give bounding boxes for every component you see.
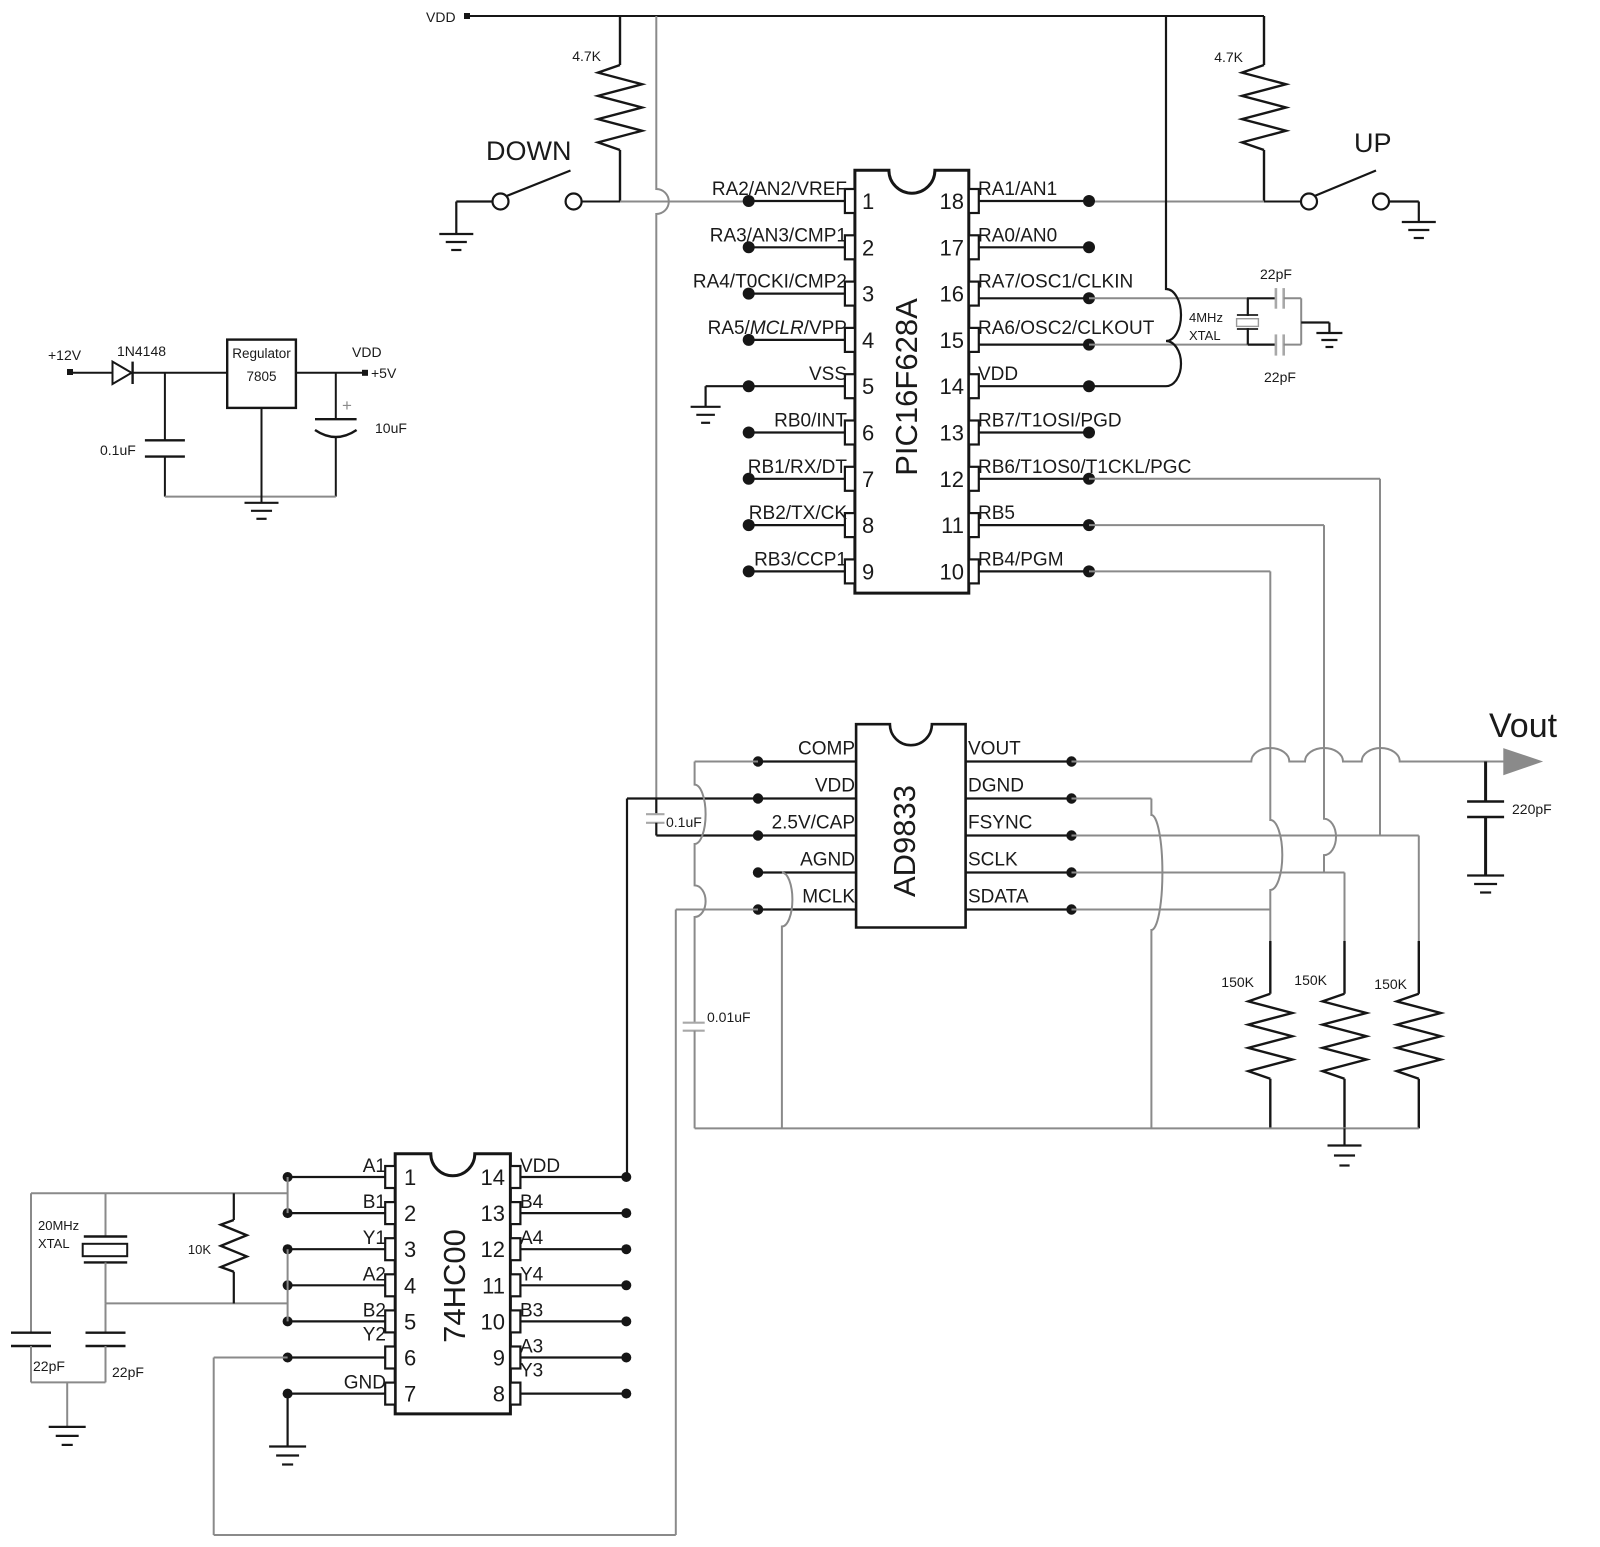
wire crystal cap bus (1300, 298, 1302, 344)
junction dot SCLK (1066, 867, 1076, 877)
wire VDD top rail (470, 15, 1264, 17)
label 220pF (C7) (1512, 801, 1552, 817)
junction dot pin 14 (1083, 380, 1095, 392)
svg-text:RB3/CCP1: RB3/CCP1 (754, 549, 847, 570)
svg-text:150K: 150K (1374, 976, 1407, 992)
IC U4 74HC00 body (395, 1154, 510, 1414)
wire AD9833 VDD stub (758, 797, 856, 799)
wire DOWN net to PIC pin 1 (620, 201, 749, 203)
label 1N4148 (117, 343, 166, 359)
svg-text:7: 7 (862, 467, 874, 492)
svg-text:0.01uF: 0.01uF (707, 1009, 751, 1025)
wire AD9833 SCLK stub (966, 871, 1072, 873)
svg-text:RB1/RX/DT: RB1/RX/DT (748, 457, 848, 478)
svg-text:12: 12 (481, 1237, 505, 1262)
wire PIC pin 6 stub (749, 431, 845, 433)
svg-text:150K: 150K (1221, 974, 1254, 990)
wire supply ground rail (165, 496, 336, 498)
IC U2 AD9833 body (856, 724, 966, 927)
svg-text:8: 8 (862, 513, 874, 538)
svg-text:220pF: 220pF (1512, 801, 1552, 817)
wire pin 6 feedback loop (214, 1358, 676, 1536)
svg-text:13: 13 (481, 1201, 505, 1226)
svg-text:COMP: COMP (798, 739, 855, 760)
wire PIC pin 8 stub (749, 524, 845, 526)
label UP (1354, 128, 1392, 158)
ground (crystal) (1316, 333, 1342, 347)
junction dot VDD (753, 793, 763, 803)
resistor R6 10K (221, 1193, 247, 1303)
svg-text:XTAL: XTAL (1189, 328, 1221, 343)
junction dot pin 11 (1083, 519, 1095, 531)
svg-text:10uF: 10uF (375, 420, 407, 436)
label 0.1uF (C5) (666, 814, 702, 830)
wire 22pF ground link (31, 1382, 106, 1426)
wire AGND net down (782, 873, 793, 1129)
IC U2 left pin labels (772, 739, 856, 908)
wire resistor R2 to UP switch (1264, 201, 1301, 203)
svg-text:RB0/INT: RB0/INT (774, 411, 847, 432)
svg-text:PIC16F628A: PIC16F628A (889, 298, 924, 476)
junction dot pin 17 (1083, 241, 1095, 253)
svg-text:RA0/AN0: RA0/AN0 (978, 225, 1057, 246)
junction dot pin 10 (1083, 565, 1095, 577)
junction dot 74HC00 pin 4 (283, 1280, 293, 1290)
svg-text:10: 10 (940, 559, 964, 584)
wire link pins 3-4-5 (287, 1249, 289, 1321)
label 22pF (C9) (112, 1364, 144, 1380)
svg-text:13: 13 (940, 421, 964, 446)
junction dot pin 18 (1083, 195, 1095, 207)
capacitor C7 220pF (1467, 762, 1504, 875)
svg-text:7805: 7805 (246, 369, 276, 384)
svg-text:Y4: Y4 (520, 1264, 544, 1285)
resistor R5 150K (1397, 994, 1441, 1129)
svg-text:DOWN: DOWN (486, 136, 571, 166)
svg-text:1: 1 (404, 1165, 416, 1190)
wire PIC pin 1 stub (749, 200, 845, 202)
node VDD +5V (352, 344, 397, 381)
svg-text:RA3/AN3/CMP1: RA3/AN3/CMP1 (710, 225, 847, 246)
capacitor C4 22pF (bottom) (1276, 334, 1301, 355)
wire PIC pin 14 stub (979, 385, 1089, 387)
junction dot COMP (753, 756, 763, 766)
svg-text:AGND: AGND (800, 850, 855, 871)
wire link pins 1-2 (287, 1177, 289, 1213)
wire AD9833 MCLK stub (758, 908, 856, 910)
label 4MHz XTAL (1189, 310, 1223, 343)
junction dot 74HC00 pin 5 (283, 1316, 293, 1326)
svg-text:4: 4 (862, 328, 874, 353)
label DOWN (486, 136, 571, 166)
junction dot pin 1 (743, 195, 755, 207)
wire 74HC00 pin 6 stub (288, 1356, 386, 1358)
ground (220pF) (1467, 876, 1504, 893)
junction dot pin 6 (743, 427, 755, 439)
diode D1 1N4148 (113, 362, 133, 384)
svg-text:DGND: DGND (968, 776, 1024, 797)
node +12V (48, 347, 82, 375)
switch DOWN (456, 171, 581, 210)
label 22pF (top) (1260, 266, 1292, 282)
svg-text:14: 14 (481, 1165, 505, 1190)
wire +12V to diode (73, 372, 113, 374)
wire AD9833 COMP stub (758, 760, 856, 762)
wire 74HC00 pin 9 stub (520, 1356, 626, 1358)
wire 74HC00 pin 8 stub (520, 1392, 626, 1394)
junction dot pin 3 (743, 288, 755, 300)
ground (VSS) (691, 407, 721, 423)
junction dot pin 5 (743, 380, 755, 392)
junction dot DGND (1066, 793, 1076, 803)
ground (20MHz caps) (49, 1427, 86, 1445)
wire PIC pin 4 stub (749, 339, 845, 341)
ground (74HC00) (269, 1447, 306, 1465)
wire oscillator top net (31, 1192, 288, 1194)
IC U1 PIC16F628A body (855, 170, 969, 593)
wire osc left branch (30, 1193, 32, 1332)
label Vout (1489, 707, 1558, 745)
svg-text:20MHz: 20MHz (38, 1218, 79, 1233)
svg-text:UP: UP (1354, 128, 1392, 158)
svg-text:11: 11 (482, 1273, 505, 1298)
output arrow Vout (1504, 749, 1542, 775)
junction dot 74HC00 pin 1 (283, 1172, 293, 1182)
ground (DOWN switch) (439, 202, 473, 251)
junction dot 74HC00 pin 11 (621, 1280, 631, 1290)
svg-text:8: 8 (493, 1382, 505, 1407)
svg-text:22pF: 22pF (1264, 369, 1296, 385)
IC U4 left pin labels (344, 1156, 386, 1394)
wire AD9833 FSYNC stub (966, 834, 1072, 836)
svg-text:FSYNC: FSYNC (968, 813, 1032, 834)
label 22pF (bottom) (1264, 369, 1296, 385)
svg-text:VOUT: VOUT (968, 739, 1021, 760)
wire to crystal ground (1301, 323, 1329, 333)
wire PIC pin 7 stub (749, 478, 845, 480)
junction dot AGND (753, 867, 763, 877)
junction dot pin 15 (1083, 339, 1095, 351)
wire RA7/OSC1 to crystal (1089, 297, 1276, 299)
svg-text:RA7/OSC1/CLKIN: RA7/OSC1/CLKIN (978, 272, 1133, 293)
wire 74HC00 pin 5 stub (288, 1320, 386, 1322)
junction dot 74HC00 pin 10 (621, 1316, 631, 1326)
wire PIC pin 10 stub (979, 570, 1089, 572)
svg-text:A2: A2 (363, 1264, 386, 1285)
svg-text:9: 9 (862, 559, 874, 584)
svg-text:7: 7 (404, 1382, 416, 1407)
wire 74HC00 pin 14 stub (520, 1176, 626, 1178)
svg-text:14: 14 (940, 374, 964, 399)
svg-text:10: 10 (481, 1309, 505, 1334)
wire DGND net down (1072, 799, 1163, 1129)
wire diode to regulator (133, 372, 227, 374)
svg-text:VDD: VDD (520, 1156, 560, 1177)
junction dot pin 16 (1083, 292, 1095, 304)
svg-text:A3: A3 (520, 1337, 543, 1358)
wire regulator ground pin (261, 408, 263, 502)
svg-text:5: 5 (862, 374, 874, 399)
label 0.01uF (C6) (707, 1009, 751, 1025)
svg-text:0.1uF: 0.1uF (666, 814, 702, 830)
wire 74HC00 pin 4 stub (288, 1284, 386, 1286)
capacitor C8 22pF (left) (11, 1333, 51, 1383)
svg-text:VDD: VDD (352, 344, 382, 360)
resistor R1 4.7K (left) (598, 16, 642, 202)
wire DOWN switch to resistor R1 (582, 201, 620, 203)
IC U2 right pin labels (968, 739, 1032, 908)
svg-text:1: 1 (862, 189, 874, 214)
wire analog ground rail (695, 1127, 1419, 1129)
svg-text:MCLK: MCLK (802, 887, 855, 908)
resistor R3 150K (1248, 994, 1292, 1129)
junction dot pin 2 (743, 241, 755, 253)
resistor R4 150K (1323, 994, 1367, 1129)
junction dot VOUT (1066, 756, 1076, 766)
svg-text:RA4/T0CKI/CMP2: RA4/T0CKI/CMP2 (693, 272, 847, 293)
wire FSYNC net (1072, 836, 1419, 994)
svg-text:+5V: +5V (371, 365, 397, 381)
wire PIC pin 5 VSS (706, 386, 845, 406)
svg-text:Vout: Vout (1489, 707, 1558, 745)
wire AD9833 DGND stub (966, 797, 1072, 799)
label 4.7K (right) (1214, 49, 1243, 65)
svg-text:+: + (342, 396, 352, 415)
svg-text:RA5/MCLR/VPP: RA5/MCLR/VPP (708, 318, 847, 339)
svg-text:B3: B3 (520, 1300, 543, 1321)
svg-text:GND: GND (344, 1373, 386, 1394)
junction dot MCLK (753, 904, 763, 914)
junction dot 74HC00 pin 13 (621, 1208, 631, 1218)
junction dot FSYNC (1066, 830, 1076, 840)
svg-text:1N4148: 1N4148 (117, 343, 166, 359)
capacitor C6 0.01uF (683, 1023, 705, 1129)
wire SDATA net (1072, 909, 1271, 911)
svg-text:SCLK: SCLK (968, 850, 1018, 871)
svg-text:4: 4 (404, 1273, 416, 1298)
svg-text:RB6/T1OS0/T1CKL/PGC: RB6/T1OS0/T1CKL/PGC (978, 457, 1191, 478)
svg-text:SDATA: SDATA (968, 887, 1029, 908)
wire 74HC00 pin 13 stub (520, 1212, 626, 1214)
ground (rail) (1328, 1128, 1362, 1165)
wire VOUT net (1072, 748, 1504, 762)
IC U1 pin boxes (845, 189, 979, 583)
wire UP net from PIC pin 18 (1089, 201, 1264, 203)
svg-text:RA1/AN1: RA1/AN1 (978, 179, 1057, 200)
junction dot 74HC00 pin 6 (283, 1353, 293, 1363)
wire COMP net down (695, 762, 758, 1023)
crystal X2 20MHz (83, 1193, 128, 1303)
wire 74HC00 pin 11 stub (520, 1284, 626, 1286)
wire PIC pin 12 stub (979, 478, 1089, 480)
wire VDD pin 14 to rail (1089, 16, 1181, 386)
junction dot pin 8 (743, 519, 755, 531)
wire RB4 to SDATA (1089, 571, 1282, 993)
svg-text:+12V: +12V (48, 347, 82, 363)
capacitor C2 10uF (polarized) (315, 373, 357, 497)
svg-text:4MHz: 4MHz (1189, 310, 1223, 325)
IC U1 pin numbers (862, 189, 964, 584)
svg-text:18: 18 (940, 189, 964, 214)
wire VDD net to AD9833 and 74HC00 (627, 799, 758, 1178)
wire AD9833 SDATA stub (966, 908, 1072, 910)
label 22pF (C8) (33, 1358, 65, 1374)
junction dot 74HC00 pin 14 (621, 1172, 631, 1182)
junction dot pin 4 (743, 334, 755, 346)
wire PIC pin 2 stub (749, 246, 845, 248)
svg-text:3: 3 (404, 1237, 416, 1262)
svg-text:3: 3 (862, 282, 874, 307)
junction dot 74HC00 pin 8 (621, 1389, 631, 1399)
wire 74HC00 pin 2 stub (288, 1212, 386, 1214)
junction dot 74HC00 pin 9 (621, 1353, 631, 1363)
IC U1 right pin labels (978, 179, 1191, 570)
wire PIC pin 9 stub (749, 570, 845, 572)
svg-text:6: 6 (862, 421, 874, 446)
junction dot pin 12 (1083, 473, 1095, 485)
svg-text:150K: 150K (1294, 972, 1327, 988)
capacitor C1 0.1uF (145, 373, 185, 497)
wire AD9833 2.5V/CAP stub (758, 834, 856, 836)
capacitor C3 22pF (top) (1276, 288, 1301, 309)
switch UP (1301, 171, 1419, 210)
svg-text:2: 2 (862, 235, 874, 260)
label 10uF (C2) (375, 420, 407, 436)
capacitor C5 0.1uF (AD9833 decoupling) (646, 799, 758, 836)
svg-text:Regulator: Regulator (232, 346, 291, 361)
wire 74HC00 pin 1 stub (288, 1176, 386, 1178)
svg-text:22pF: 22pF (1260, 266, 1292, 282)
ground (UP switch) (1402, 202, 1436, 239)
wire AD9833 AGND stub (758, 871, 856, 873)
wire RB6 to FSYNC (1089, 479, 1380, 836)
svg-text:RB2/TX/CK: RB2/TX/CK (749, 503, 848, 524)
svg-text:22pF: 22pF (33, 1358, 65, 1374)
svg-text:74HC00: 74HC00 (437, 1229, 472, 1343)
svg-text:16: 16 (940, 282, 964, 307)
junction dot 2.5V/CAP (753, 830, 763, 840)
wire 74HC00 GND pin (287, 1394, 289, 1446)
svg-text:17: 17 (940, 235, 964, 260)
svg-text:Y2: Y2 (363, 1324, 386, 1345)
label 0.1uF (C1) (100, 442, 136, 458)
ground (regulator) (245, 503, 279, 519)
svg-text:2.5V/CAP: 2.5V/CAP (772, 813, 855, 834)
junction dot pin 9 (743, 565, 755, 577)
svg-text:Y1: Y1 (363, 1228, 386, 1249)
svg-text:RB5: RB5 (978, 503, 1015, 524)
label PIC16F628A (889, 298, 924, 476)
junction dot 74HC00 pin 2 (283, 1208, 293, 1218)
junction dot 74HC00 pin 7 (283, 1389, 293, 1399)
svg-text:RB4/PGM: RB4/PGM (978, 549, 1064, 570)
svg-text:15: 15 (940, 328, 964, 353)
svg-text:AD9833: AD9833 (887, 785, 922, 897)
junction dot 74HC00 pin 3 (283, 1244, 293, 1254)
svg-text:A4: A4 (520, 1228, 544, 1249)
wire VDD branch to AD9833/74HC00 supply (656, 16, 668, 799)
IC U4 pin numbers (404, 1165, 505, 1407)
svg-text:VDD: VDD (426, 9, 456, 25)
svg-text:Y3: Y3 (520, 1361, 543, 1382)
wire crystal bottom to cap (105, 1303, 107, 1332)
svg-text:5: 5 (404, 1309, 416, 1334)
svg-text:VDD: VDD (815, 776, 855, 797)
label 4.7K (left) (572, 48, 601, 64)
wire PIC pin 18 stub (979, 200, 1089, 202)
junction dot SDATA (1066, 904, 1076, 914)
regulator U3 7805 (227, 340, 296, 408)
wire MCLK net (676, 910, 758, 1536)
svg-text:B2: B2 (363, 1300, 386, 1321)
node VDD (top rail label) (426, 9, 470, 25)
junction dot pin 7 (743, 473, 755, 485)
wire SCLK net (1072, 873, 1345, 994)
wire RB5 to SCLK (1089, 525, 1336, 872)
IC U4 right pin labels (520, 1156, 560, 1382)
wire PIC pin 13 stub (979, 431, 1089, 433)
svg-text:RA2/AN2/VREF: RA2/AN2/VREF (712, 179, 847, 200)
IC U4 pin boxes (385, 1166, 520, 1405)
svg-text:XTAL: XTAL (38, 1236, 70, 1251)
svg-text:11: 11 (941, 513, 964, 538)
svg-text:RB7/T1OSI/PGD: RB7/T1OSI/PGD (978, 411, 1122, 432)
wire 74HC00 pin 7 stub (288, 1392, 386, 1394)
junction dot pin 13 (1083, 427, 1095, 439)
wire PIC pin 15 stub (979, 344, 1089, 346)
label AD9833 (887, 785, 922, 897)
wire 74HC00 pin 12 stub (520, 1248, 626, 1250)
wire AD9833 VOUT stub (966, 760, 1072, 762)
wire 74HC00 pin 10 stub (520, 1320, 626, 1322)
svg-text:2: 2 (404, 1201, 416, 1226)
wire PIC pin 16 stub (979, 297, 1089, 299)
IC U1 left pin labels (693, 179, 848, 570)
svg-text:10K: 10K (188, 1242, 211, 1257)
wire RA6/OSC2 to crystal (1089, 344, 1276, 346)
label 150K (R4) (1294, 972, 1327, 988)
label 150K (R3) (1221, 974, 1254, 990)
label 10K (188, 1242, 211, 1257)
wire 74HC00 pin 3 stub (288, 1248, 386, 1250)
svg-text:9: 9 (493, 1346, 505, 1371)
label 150K (R5) (1374, 976, 1407, 992)
wire PIC pin 11 stub (979, 524, 1089, 526)
junction dot 74HC00 pin 12 (621, 1244, 631, 1254)
wire PIC pin 17 stub (979, 246, 1089, 248)
svg-text:VSS: VSS (809, 364, 847, 385)
wire PIC pin 3 stub (749, 293, 845, 295)
svg-text:B4: B4 (520, 1192, 544, 1213)
svg-text:4.7K: 4.7K (1214, 49, 1243, 65)
svg-text:22pF: 22pF (112, 1364, 144, 1380)
wire oscillator bottom net (106, 1302, 288, 1304)
svg-text:VDD: VDD (978, 364, 1018, 385)
svg-text:6: 6 (404, 1346, 416, 1371)
svg-text:4.7K: 4.7K (572, 48, 601, 64)
crystal X1 4MHz (1237, 298, 1259, 344)
svg-text:12: 12 (940, 467, 964, 492)
capacitor C9 22pF (right) (86, 1333, 126, 1383)
label 20MHz XTAL (38, 1218, 79, 1251)
svg-text:A1: A1 (363, 1156, 386, 1177)
svg-text:RA6/OSC2/CLKOUT: RA6/OSC2/CLKOUT (978, 318, 1155, 339)
label 74HC00 (437, 1229, 472, 1343)
svg-text:B1: B1 (363, 1192, 386, 1213)
resistor R2 4.7K (right) (1242, 16, 1286, 202)
wire regulator to +5V (296, 372, 364, 374)
svg-text:0.1uF: 0.1uF (100, 442, 136, 458)
